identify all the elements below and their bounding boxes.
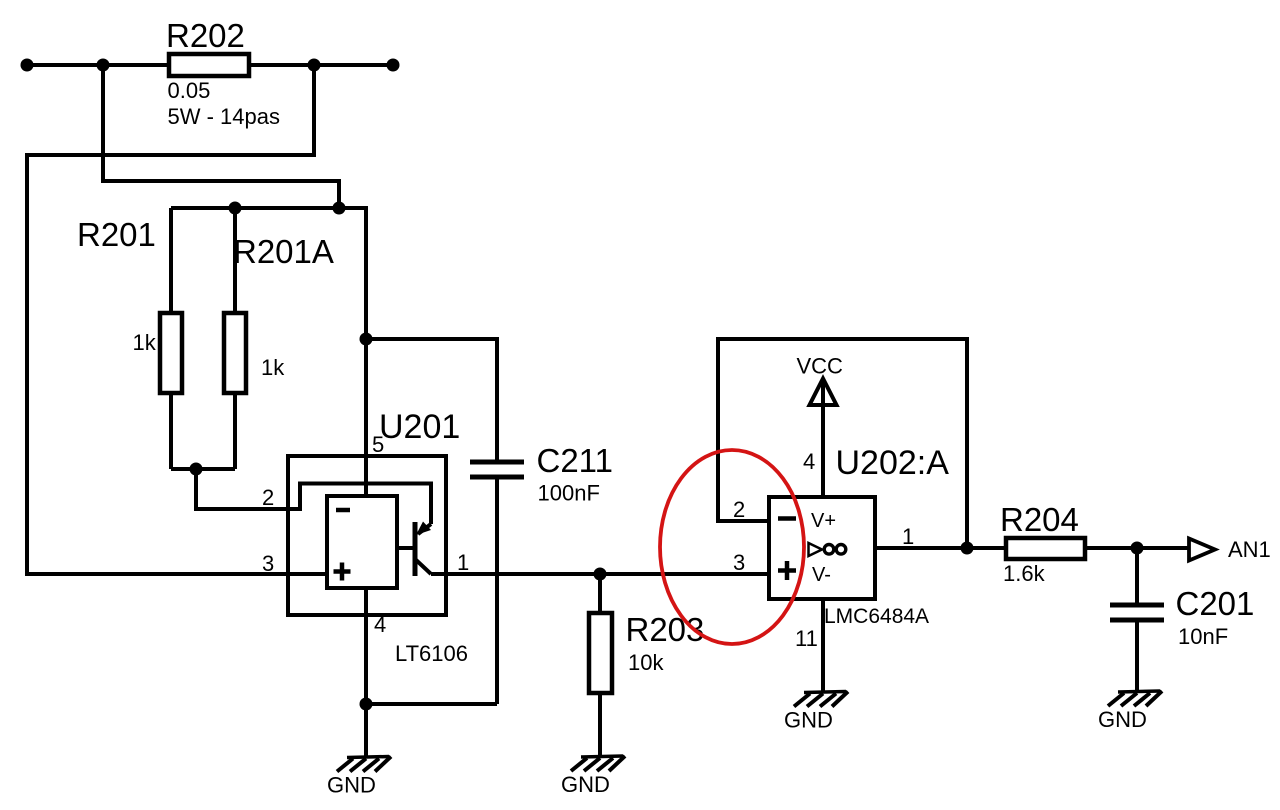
node R201 join bbox=[190, 463, 203, 476]
svg-text:LT6106: LT6106 bbox=[395, 641, 468, 666]
svg-text:1: 1 bbox=[902, 524, 914, 549]
wire top bus bbox=[27, 63, 393, 67]
node feedback tap bbox=[961, 542, 974, 555]
svg-text:R201: R201 bbox=[77, 216, 156, 253]
svg-text:GND: GND bbox=[1098, 707, 1147, 732]
wire from node B to U201 pin 3 bbox=[27, 65, 327, 574]
wire C211 bottom to pin4 bbox=[366, 702, 497, 706]
wire to C211 top bbox=[366, 339, 497, 461]
node junction A bbox=[97, 59, 110, 72]
svg-text:R201A: R201A bbox=[233, 233, 334, 270]
svg-text:GND: GND bbox=[327, 773, 376, 798]
ground GND2 bbox=[561, 756, 625, 797]
svg-text:10k: 10k bbox=[628, 650, 664, 675]
svg-text:100nF: 100nF bbox=[538, 481, 600, 506]
resistor R201A bbox=[233, 208, 237, 313]
highlight red ellipse bbox=[660, 450, 804, 644]
svg-text:2: 2 bbox=[262, 485, 274, 510]
svg-text:4: 4 bbox=[803, 449, 815, 474]
wire R201 bottoms join bbox=[171, 467, 235, 471]
op-amp U201 bbox=[288, 456, 446, 615]
svg-text:V+: V+ bbox=[811, 510, 836, 532]
svg-text:1k: 1k bbox=[133, 330, 157, 355]
wire R201 top bus bbox=[171, 208, 366, 496]
svg-text:VCC: VCC bbox=[797, 354, 844, 379]
svg-text:LMC6484A: LMC6484A bbox=[824, 605, 929, 628]
wire U201 output to U202 pin 3 bbox=[431, 572, 769, 576]
svg-text:11: 11 bbox=[795, 626, 818, 651]
svg-text:0.05: 0.05 bbox=[168, 78, 211, 103]
wire U201 pin 4 to ground bbox=[364, 588, 368, 758]
node supply join bbox=[333, 202, 346, 215]
svg-text:U202:A: U202:A bbox=[836, 444, 950, 482]
resistor R201 bbox=[169, 208, 173, 313]
svg-text:R202: R202 bbox=[166, 17, 245, 54]
wire VCC to pin 4 bbox=[821, 380, 825, 497]
wire U202 output bbox=[875, 546, 1188, 550]
ground GND4 bbox=[1098, 691, 1162, 732]
capacitor C201 bbox=[1135, 548, 1139, 605]
resistor R203 bbox=[598, 574, 602, 613]
U202 plus input symbol bbox=[778, 568, 796, 573]
svg-text:1.6k: 1.6k bbox=[1003, 561, 1046, 586]
resistor R202 bbox=[169, 54, 249, 76]
U201 plus input symbol bbox=[334, 569, 351, 574]
svg-text:U201: U201 bbox=[379, 408, 460, 446]
svg-text:1: 1 bbox=[457, 550, 469, 575]
node terminal right bbox=[387, 59, 400, 72]
svg-text:C201: C201 bbox=[1176, 585, 1255, 622]
ground GND1 bbox=[327, 757, 391, 798]
ground GND3 bbox=[784, 692, 848, 733]
wire from node A down to R201 bus bbox=[103, 65, 339, 208]
power VCC bbox=[810, 379, 837, 406]
output arrow AN1 bbox=[1189, 539, 1215, 561]
resistor R204 bbox=[1006, 538, 1085, 559]
U202 minus input symbol bbox=[778, 516, 796, 521]
wire feedback loop U202 bbox=[718, 339, 967, 548]
svg-text:R204: R204 bbox=[1000, 501, 1079, 538]
svg-text:V-: V- bbox=[812, 564, 831, 586]
U202 amp symbol bbox=[809, 543, 823, 556]
svg-text:1k: 1k bbox=[261, 355, 285, 380]
node terminal left bbox=[21, 59, 34, 72]
U201 minus input symbol bbox=[336, 508, 350, 513]
svg-text:GND: GND bbox=[561, 772, 610, 797]
capacitor C211 bbox=[470, 460, 524, 465]
node C201 tap bbox=[1131, 542, 1144, 555]
svg-text:10nF: 10nF bbox=[1178, 624, 1228, 649]
node C211 branch bbox=[360, 333, 373, 346]
svg-text:GND: GND bbox=[784, 708, 833, 733]
svg-text:4: 4 bbox=[374, 612, 386, 637]
svg-text:3: 3 bbox=[262, 551, 274, 576]
wire to U201 pin 2 and internal feedback bbox=[196, 469, 431, 524]
node pin4 branch bbox=[360, 698, 373, 711]
wire U202 pin 11 to ground bbox=[821, 599, 825, 693]
svg-text:2: 2 bbox=[733, 497, 745, 522]
svg-text:AN1: AN1 bbox=[1228, 537, 1271, 562]
op-amp U202:A bbox=[769, 497, 875, 599]
svg-text:5W - 14pas: 5W - 14pas bbox=[168, 104, 281, 129]
node junction B bbox=[308, 59, 321, 72]
node R203 tap bbox=[594, 568, 607, 581]
svg-text:C211: C211 bbox=[537, 442, 613, 479]
svg-text:5: 5 bbox=[372, 432, 384, 457]
transistor Q inside U201 bbox=[413, 522, 418, 576]
svg-text:3: 3 bbox=[733, 550, 745, 575]
node R201A top bbox=[229, 202, 242, 215]
